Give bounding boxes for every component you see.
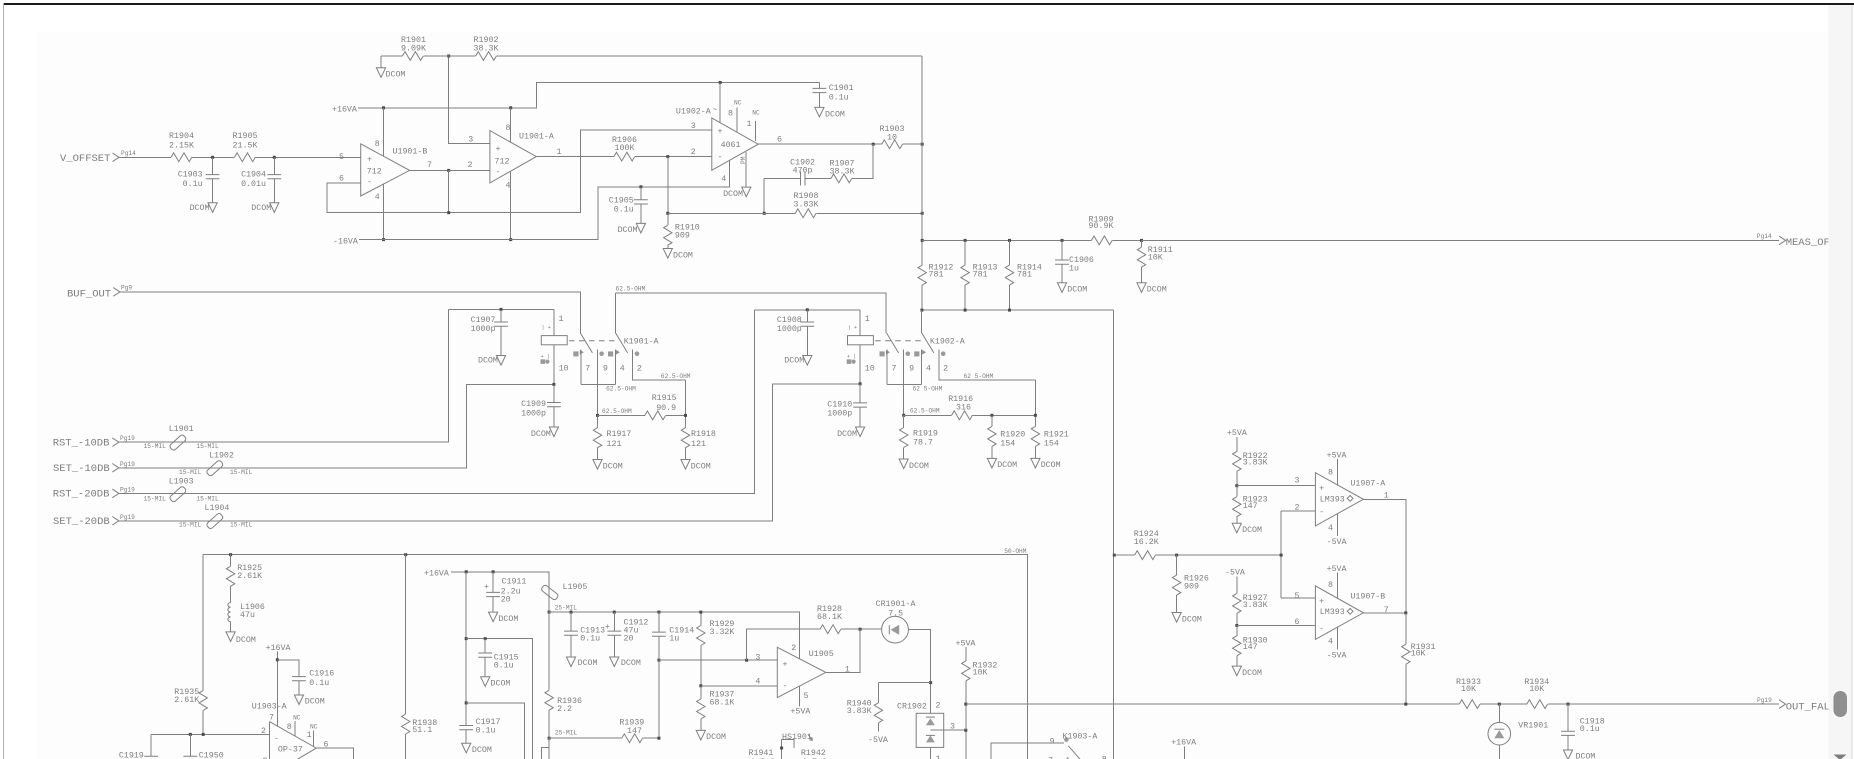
- ground DCOM: [815, 107, 845, 119]
- inductor L1902: [179, 452, 253, 477]
- node junction: [552, 383, 555, 386]
- net -16VA rail: [333, 160, 730, 246]
- wire C1914 to R1939 node: [658, 660, 660, 738]
- svg-text:Pg9: Pg9: [121, 285, 132, 292]
- wire right riser 50ohm feed: [1113, 310, 1115, 759]
- svg-text:4: 4: [755, 677, 760, 686]
- node junction: [509, 238, 512, 241]
- resistor R1903 10: [880, 125, 923, 149]
- svg-text:+: +: [367, 156, 372, 165]
- scrollbar down arrow: [1834, 755, 1847, 759]
- wire pin2 U1901-A: [449, 169, 490, 171]
- node junction: [1404, 611, 1407, 614]
- capacitor C1918 0.1u: [1561, 704, 1605, 750]
- wire output rail 50-OHM: [203, 555, 1027, 759]
- node junction: [1235, 624, 1238, 627]
- ground DCOM: [489, 612, 519, 624]
- svg-text:R1904: R1904: [169, 132, 194, 141]
- capacitor C1912 47u 20: [605, 612, 648, 657]
- wire output U1901-B: [410, 169, 490, 171]
- svg-text:L1903: L1903: [169, 478, 194, 487]
- svg-text:DCOM: DCOM: [825, 110, 845, 119]
- capacitor C1916 0.1u: [292, 669, 334, 695]
- node junction: [964, 703, 967, 706]
- net +16VA (U1903 supply): [266, 644, 291, 727]
- svg-text:DCOM: DCOM: [1242, 526, 1262, 535]
- node junction: [859, 628, 862, 631]
- svg-text:CR1902: CR1902: [897, 703, 927, 712]
- svg-text:10: 10: [865, 364, 875, 373]
- diode pair CR1902: [897, 702, 955, 759]
- svg-text:62.5-OHM: 62.5-OHM: [602, 408, 632, 415]
- svg-text:K1903-A: K1903-A: [1063, 733, 1098, 742]
- ground DCOM: [376, 56, 405, 80]
- wire C1915 branch: [466, 639, 532, 759]
- node SET_-10DB (Pg19 flag): [53, 461, 135, 475]
- svg-text:L1905: L1905: [563, 583, 588, 592]
- svg-text:2.61K: 2.61K: [174, 696, 199, 705]
- node junction: [1008, 239, 1011, 242]
- svg-text:C1904: C1904: [241, 171, 266, 180]
- svg-text:15-MIL: 15-MIL: [179, 522, 202, 529]
- net +5VA (U1907-B): [1327, 565, 1347, 598]
- node junction: [211, 156, 214, 159]
- svg-text:100K: 100K: [615, 144, 635, 153]
- ground DCOM: [190, 203, 218, 213]
- svg-text:R1921: R1921: [1044, 431, 1069, 440]
- svg-text:4061: 4061: [721, 141, 741, 150]
- svg-text:15-MIL: 15-MIL: [230, 469, 253, 476]
- node junction: [1498, 703, 1501, 706]
- svg-text:68.1K: 68.1K: [710, 699, 735, 708]
- node junction: [465, 637, 468, 640]
- svg-text:RST_-10DB: RST_-10DB: [53, 437, 110, 449]
- node junction: [657, 611, 660, 614]
- svg-text:-: -: [496, 168, 501, 177]
- svg-text:U1901-B: U1901-B: [393, 148, 428, 157]
- wire: [448, 170, 450, 212]
- wire CR1902 mid tap: [931, 730, 966, 759]
- svg-text:8: 8: [1328, 469, 1333, 478]
- svg-text:0.1u: 0.1u: [183, 180, 203, 189]
- wire: [192, 156, 235, 158]
- node junction: [657, 737, 660, 740]
- svg-text:DCOM: DCOM: [784, 357, 804, 366]
- wire: [256, 156, 361, 158]
- node junction: [964, 729, 967, 732]
- resistor R1910 909: [664, 213, 700, 248]
- resistor R1919 78.7: [900, 415, 938, 459]
- svg-text:0.1u: 0.1u: [614, 205, 634, 214]
- capacitor C1901 0.1u: [813, 83, 854, 108]
- svg-text:3.83K: 3.83K: [847, 707, 872, 716]
- zener VR1901: [1488, 704, 1548, 759]
- svg-text:9.09K: 9.09K: [401, 45, 426, 54]
- svg-text:909: 909: [1184, 582, 1199, 591]
- resistor R1941 (cut): [749, 749, 775, 759]
- svg-text:VR1901: VR1901: [1518, 721, 1548, 730]
- ground DCOM: [837, 427, 865, 439]
- resistor R1934 10K: [1524, 678, 1549, 708]
- node junction: [548, 611, 551, 614]
- svg-text:9: 9: [909, 364, 914, 373]
- svg-text:4: 4: [926, 364, 931, 373]
- node junction: [921, 212, 924, 215]
- svg-text:C1901: C1901: [829, 84, 854, 93]
- svg-text:4: 4: [506, 182, 511, 191]
- svg-text:U1902-A: U1902-A: [676, 108, 711, 117]
- svg-text:DCOM: DCOM: [478, 357, 498, 366]
- resistor R1939 147: [619, 719, 644, 743]
- svg-text:21.5K: 21.5K: [233, 142, 258, 151]
- svg-text:8: 8: [1328, 581, 1333, 590]
- ground DCOM: [531, 427, 559, 439]
- resistor R1922 3.83K: [1233, 451, 1268, 485]
- wire R1940 branch: [878, 682, 930, 684]
- svg-text:~: ~: [713, 106, 718, 115]
- inductor L1903: [144, 478, 219, 503]
- resistor R1930 147: [1233, 626, 1268, 667]
- node junction: [806, 308, 809, 311]
- node junction: [964, 239, 967, 242]
- svg-text:7.5: 7.5: [888, 609, 903, 618]
- wire K1901 coil top rail: [448, 308, 554, 310]
- svg-text:78.7: 78.7: [913, 439, 933, 448]
- resistor R1912 781: [918, 263, 953, 285]
- svg-text:RST_-20DB: RST_-20DB: [53, 489, 110, 501]
- inductor L1905: [541, 583, 588, 612]
- svg-text:5: 5: [339, 153, 344, 162]
- svg-text:1000p: 1000p: [827, 410, 852, 419]
- svg-text:3: 3: [691, 122, 696, 131]
- svg-text:NC: NC: [752, 109, 760, 116]
- ground DCOM: [663, 249, 693, 261]
- svg-text:CR1901-A: CR1901-A: [876, 600, 916, 609]
- resistor R1937 68.1K: [697, 686, 735, 731]
- op-amp U1902-A 4061: [676, 99, 760, 184]
- wire R1924 row: [1114, 554, 1281, 556]
- svg-text:| +: | +: [848, 325, 857, 331]
- ground DCOM: [1232, 523, 1262, 535]
- ground DCOM: [462, 743, 492, 755]
- node junction: [719, 81, 722, 84]
- capacitor C1919: [119, 734, 158, 759]
- net +16VA (filter rail): [424, 570, 549, 613]
- node junction: [404, 553, 407, 556]
- resistor R1938 51.1: [402, 555, 438, 759]
- ground DCOM: [696, 730, 726, 742]
- resistor R1905 21.5K: [233, 132, 258, 162]
- node OUT_FAL (Pg19 flag): [1757, 697, 1836, 714]
- wire U1907-A output: [1363, 499, 1405, 613]
- svg-text:7: 7: [427, 161, 432, 170]
- resistor R1924 16.2K: [1134, 530, 1159, 559]
- net +16VA (bottom): [1171, 738, 1196, 759]
- wire C1902 left drop: [763, 178, 765, 213]
- capacitor C1903 0.1u: [178, 157, 220, 202]
- ground DCOM: [593, 460, 623, 472]
- node junction: [229, 553, 232, 556]
- wire: [120, 156, 172, 158]
- wire output U1901-A: [536, 156, 614, 158]
- node junction: [447, 211, 450, 214]
- resistor R1913 781: [961, 240, 998, 310]
- wire U1903 output: [316, 748, 353, 759]
- node junction: [1113, 554, 1116, 557]
- wire R1918 riser: [685, 380, 687, 428]
- resistor R1933 10K: [1456, 678, 1481, 708]
- svg-text:121: 121: [691, 440, 706, 449]
- svg-text:10K: 10K: [1411, 650, 1426, 659]
- ground DCOM: [251, 203, 279, 213]
- svg-text:1000p: 1000p: [521, 409, 546, 418]
- svg-text:R1942: R1942: [801, 749, 826, 758]
- svg-text:3: 3: [468, 136, 473, 145]
- resistor R1904 2.15K: [169, 132, 194, 162]
- svg-text:V_OFFSET: V_OFFSET: [60, 153, 110, 165]
- node junction: [920, 309, 923, 312]
- node RST_-20DB (Pg19 flag): [53, 486, 135, 500]
- svg-text:25-MIL: 25-MIL: [555, 605, 578, 612]
- svg-text:C1910: C1910: [827, 400, 852, 409]
- wire left supply vertical: [465, 572, 467, 743]
- svg-text:+16VA: +16VA: [1171, 738, 1196, 747]
- svg-text:DCOM: DCOM: [997, 461, 1017, 470]
- svg-text:+: +: [1319, 485, 1324, 494]
- svg-text:712: 712: [495, 158, 510, 167]
- resistor R1921 154: [1031, 426, 1069, 458]
- svg-text:+5VA: +5VA: [790, 707, 810, 716]
- svg-text:R1919: R1919: [913, 429, 938, 438]
- node junction: [921, 239, 924, 242]
- inductor L1904: [179, 504, 253, 530]
- svg-text:1000p: 1000p: [471, 325, 496, 334]
- comparator U1907-B LM393: [1295, 581, 1389, 646]
- node junction: [1061, 239, 1064, 242]
- node BUF_OUT (Pg9 flag): [67, 285, 132, 301]
- node junction: [763, 212, 766, 215]
- wire C1916 branch: [277, 660, 299, 677]
- svg-text:+16VA: +16VA: [332, 105, 357, 114]
- svg-text:15-MIL: 15-MIL: [179, 469, 202, 476]
- wire MEAS_OF long: [1142, 239, 1780, 241]
- net +5VA (R1922): [1227, 429, 1247, 451]
- svg-text:C1916: C1916: [309, 669, 334, 678]
- op-amp U1905: [755, 644, 850, 701]
- wire pin9 row: [904, 414, 1036, 416]
- capacitor C1911 2.2u 20: [484, 572, 526, 612]
- svg-text:1: 1: [307, 731, 312, 740]
- resistor R1926 909: [1172, 555, 1209, 612]
- svg-text:Pg19: Pg19: [120, 514, 135, 521]
- op-amp U1903-A OP-37: [252, 703, 329, 759]
- wire U1907-B pin6: [1237, 625, 1316, 627]
- ground DCOM: [1057, 283, 1087, 295]
- relay K1901-A switch: [569, 333, 686, 416]
- svg-text:4: 4: [1328, 524, 1333, 533]
- scrollbar thumb: [1834, 691, 1848, 717]
- wire output U1902-A: [758, 143, 882, 145]
- svg-text:316: 316: [956, 403, 971, 412]
- ground DCOM: [1563, 750, 1595, 759]
- svg-text:470p: 470p: [793, 167, 813, 176]
- svg-text:0.1u: 0.1u: [580, 635, 600, 644]
- node junction: [1008, 309, 1011, 312]
- wire U1903 pin2: [151, 733, 269, 735]
- svg-text:DCOM: DCOM: [1182, 615, 1202, 624]
- ground DCOM: [618, 223, 646, 235]
- svg-text:L1902: L1902: [209, 452, 234, 461]
- wire attenuator bottom rail: [922, 309, 1114, 311]
- svg-text:0.1u: 0.1u: [309, 679, 329, 688]
- wire U1905 output: [826, 629, 860, 672]
- scrollbar gutter: [1829, 5, 1853, 759]
- net -5VA (U1907-A): [1327, 514, 1347, 547]
- svg-text:DCOM: DCOM: [386, 71, 406, 80]
- capacitor C1904 0.01u: [241, 157, 281, 202]
- heatsink HS1901: [780, 733, 812, 759]
- svg-text:5: 5: [1295, 592, 1300, 601]
- ground DCOM: [784, 356, 812, 366]
- svg-text:-: -: [1319, 508, 1324, 517]
- node junction: [684, 414, 687, 417]
- resistor R1932 10K: [962, 647, 998, 730]
- svg-text:DCOM: DCOM: [1242, 669, 1262, 678]
- svg-text:1: 1: [747, 120, 752, 129]
- frame left border: [3, 3, 4, 759]
- svg-text:DCOM: DCOM: [472, 746, 492, 755]
- svg-text:+ |: + |: [847, 354, 856, 360]
- wire SET_-10DB: [119, 384, 554, 467]
- node junction: [382, 238, 385, 241]
- svg-text:8: 8: [1102, 756, 1107, 759]
- svg-text:7: 7: [1384, 606, 1389, 615]
- node junction: [202, 733, 205, 736]
- svg-text:2: 2: [691, 148, 696, 157]
- node junction: [964, 309, 967, 312]
- net +16VA rail: [332, 83, 819, 115]
- svg-text:NC: NC: [293, 715, 301, 722]
- node junction: [276, 658, 279, 661]
- resistor R1925 2.61K: [226, 555, 262, 603]
- svg-text:LM393: LM393: [1320, 495, 1345, 504]
- svg-text:68.1K: 68.1K: [817, 613, 842, 622]
- svg-text:DCOM: DCOM: [673, 252, 693, 261]
- svg-text:C1919: C1919: [119, 751, 144, 759]
- svg-text:8: 8: [728, 109, 733, 118]
- wire K1901 pin3 to K1902 pin8: [616, 293, 887, 333]
- wire R1939 row: [549, 737, 659, 739]
- node junction: [570, 611, 573, 614]
- relay K1902-A coil: [847, 310, 875, 384]
- op-amp U1901-A 712: [490, 124, 562, 191]
- svg-text:LM393: LM393: [1320, 608, 1345, 617]
- capacitor C1917 0.1u: [459, 718, 500, 735]
- node junction: [1235, 484, 1238, 487]
- svg-text:R1918: R1918: [691, 430, 716, 439]
- wire U1905 pin5 stub: [799, 686, 801, 706]
- svg-text:2: 2: [943, 364, 948, 373]
- inductor L1901: [144, 425, 219, 451]
- wire U1907-B output: [1363, 612, 1405, 614]
- svg-text:DCOM: DCOM: [691, 462, 711, 471]
- node junction: [657, 659, 660, 662]
- svg-text:DCOM: DCOM: [621, 659, 641, 668]
- resistor R1929 3.32K: [697, 612, 735, 686]
- capacitor C1914 1u: [652, 612, 694, 660]
- resistor R1908 3.83K: [668, 192, 922, 218]
- svg-text:712: 712: [367, 168, 382, 177]
- svg-text:DCOM: DCOM: [706, 733, 726, 742]
- ground DCOM: [1232, 666, 1262, 678]
- svg-text:51.1: 51.1: [412, 726, 432, 735]
- inductor L1906 47u: [228, 603, 265, 632]
- svg-text:BUF_OUT: BUF_OUT: [67, 289, 111, 301]
- wire from R1901/R1902 node down to pin3: [449, 56, 490, 144]
- diode CR1901-A 7.5: [876, 600, 916, 643]
- svg-text:62 5-OHM: 62 5-OHM: [964, 373, 994, 380]
- svg-text:90.9K: 90.9K: [1089, 222, 1114, 231]
- node junction: [666, 212, 669, 215]
- node junction: [921, 143, 924, 146]
- node junction: [500, 308, 503, 311]
- svg-text:15-MIL: 15-MIL: [196, 496, 219, 503]
- svg-text:+5VA: +5VA: [1227, 429, 1247, 438]
- wire U1905 pin3: [659, 659, 777, 661]
- capacitor C1913 0.1u: [564, 612, 605, 657]
- svg-text:DCOM: DCOM: [909, 462, 929, 471]
- wire pin9 row: [598, 414, 686, 416]
- svg-text:6: 6: [339, 175, 344, 184]
- svg-text:2: 2: [468, 161, 473, 170]
- svg-text:-: -: [718, 153, 723, 162]
- svg-text:3: 3: [1295, 477, 1300, 486]
- resistor R1920 154: [988, 415, 1026, 458]
- svg-text:DCOM: DCOM: [603, 462, 623, 471]
- svg-text:DCOM: DCOM: [236, 636, 256, 645]
- node junction: [1404, 703, 1407, 706]
- resistor R1935 2.61K: [174, 555, 207, 735]
- svg-text:1u: 1u: [1069, 265, 1079, 274]
- svg-text:10K: 10K: [1148, 254, 1163, 263]
- svg-text:U1907-B: U1907-B: [1350, 593, 1385, 602]
- svg-text:U1903-A: U1903-A: [252, 703, 287, 712]
- svg-text:DCOM: DCOM: [578, 659, 598, 668]
- svg-text:4: 4: [1328, 637, 1333, 646]
- svg-text:R1920: R1920: [1000, 431, 1025, 440]
- wire R1921 riser: [1034, 380, 1036, 426]
- wire U1905 pin4: [701, 685, 778, 687]
- svg-text:+: +: [605, 623, 610, 632]
- svg-text:10: 10: [887, 133, 897, 142]
- wire filtered rail: [549, 612, 799, 659]
- node junction: [1140, 239, 1143, 242]
- svg-text:9: 9: [603, 364, 608, 373]
- net +5VA (U1907-A): [1327, 452, 1347, 485]
- resistor R1923 147: [1233, 486, 1268, 524]
- svg-text:-5VA: -5VA: [868, 736, 888, 745]
- svg-text:15-MIL: 15-MIL: [230, 522, 253, 529]
- svg-text:-16VA: -16VA: [333, 237, 358, 246]
- svg-text:Pg19: Pg19: [1757, 697, 1772, 704]
- svg-text:-5VA: -5VA: [1225, 568, 1245, 577]
- svg-text:DCOM: DCOM: [618, 226, 638, 235]
- wire V- drop U1901-A: [510, 171, 512, 239]
- svg-text:SET_-10DB: SET_-10DB: [53, 463, 110, 475]
- op-amp U1901-B 712: [339, 140, 432, 202]
- ground DCOM: [610, 657, 641, 668]
- svg-text:7: 7: [269, 714, 274, 723]
